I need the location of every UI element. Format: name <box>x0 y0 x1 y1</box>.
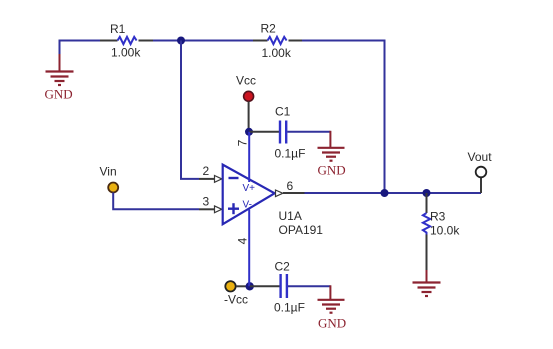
wire Vin down <box>113 193 199 210</box>
svg-text:0.1µF: 0.1µF <box>274 301 305 315</box>
wire R1 right lead <box>139 40 154 42</box>
svg-text:7: 7 <box>236 139 250 146</box>
pin 3 arrow <box>215 206 222 213</box>
svg-text:R2: R2 <box>261 22 277 36</box>
pin 6 arrow <box>276 190 283 197</box>
wire R2 right lead <box>289 40 303 42</box>
wire pin2 lead <box>199 178 215 180</box>
pin 2 arrow <box>215 176 222 183</box>
wire mid top rail <box>153 40 253 42</box>
svg-text:GND: GND <box>45 87 73 102</box>
svg-text:OPA191: OPA191 <box>279 223 324 237</box>
port -Vcc circle <box>225 281 235 291</box>
wire C2 gnd drop maroon <box>329 285 331 300</box>
node E junction -Vcc/C2/pin4 <box>246 282 254 290</box>
svg-text:-Vcc: -Vcc <box>224 293 248 307</box>
wire R1 left lead <box>100 40 118 42</box>
ground GND C2 <box>318 300 345 313</box>
wire output rail <box>305 192 482 194</box>
power Vcc dot <box>244 91 254 101</box>
node D junction Vcc/C1/pin7 <box>245 128 253 136</box>
wire Vout up <box>480 178 482 194</box>
node B junction feedback/output <box>381 189 389 197</box>
wire node A down to pin2 <box>181 41 199 179</box>
svg-text:6: 6 <box>287 179 294 193</box>
capacitor C1 <box>280 121 286 144</box>
svg-text:10.0k: 10.0k <box>430 224 460 238</box>
port Vin circle <box>108 183 118 193</box>
wire Vcc to junction <box>248 102 250 132</box>
wire -Vcc to junction <box>236 285 246 287</box>
op-amp U1A triangle <box>223 165 275 225</box>
svg-text:2: 2 <box>203 164 210 178</box>
svg-text:V-: V- <box>243 200 252 211</box>
svg-text:U1A: U1A <box>279 209 302 223</box>
svg-text:1.00k: 1.00k <box>111 46 141 60</box>
wire C2 right to gnd corner <box>288 285 330 287</box>
svg-text:R3: R3 <box>430 210 446 224</box>
ground R3 <box>413 283 441 297</box>
wire R3 bottom lead <box>426 235 428 271</box>
svg-text:GND: GND <box>318 316 346 331</box>
wire R2 left lead <box>253 40 268 42</box>
svg-text:1.00k: 1.00k <box>262 46 292 60</box>
svg-text:Vcc: Vcc <box>236 74 256 88</box>
wire top rail right and drop to output node <box>302 41 385 194</box>
wire C2 left lead <box>250 285 280 287</box>
svg-text:V+: V+ <box>243 183 256 194</box>
resistor R1 <box>118 37 137 44</box>
svg-text:R1: R1 <box>110 22 126 36</box>
pin 4 wire <box>248 210 250 287</box>
wire C1 right to ground corner <box>287 131 330 133</box>
svg-text:Vin: Vin <box>100 165 117 179</box>
node A junction R1/R2 <box>177 37 185 45</box>
svg-text:0.1µF: 0.1µF <box>275 147 306 161</box>
svg-text:GND: GND <box>318 163 346 178</box>
op-amp plus sign <box>228 203 239 214</box>
pin 7 wire <box>248 132 250 182</box>
wire pin3 lead <box>199 208 215 210</box>
svg-text:C2: C2 <box>275 260 291 274</box>
ground GND C1 <box>318 148 345 161</box>
resistor R2 <box>268 37 287 44</box>
wire top rail left blue segment <box>60 41 101 72</box>
wire R3 top lead <box>426 193 428 213</box>
svg-text:C1: C1 <box>275 105 291 119</box>
wire R3 gnd maroon <box>426 270 428 283</box>
svg-text:3: 3 <box>203 195 210 209</box>
wire C1 left lead <box>249 131 279 133</box>
svg-text:4: 4 <box>236 237 250 244</box>
port Vout circle <box>476 167 487 178</box>
op-amp minus sign <box>229 177 239 179</box>
resistor R3 <box>423 213 430 235</box>
capacitor C2 <box>281 274 287 298</box>
wire pin6 lead <box>283 192 305 194</box>
wire C1 gnd drop maroon <box>329 131 331 148</box>
node C junction R3 <box>423 189 431 197</box>
wire left ground drop maroon <box>59 54 61 72</box>
ground GND left <box>46 72 74 86</box>
svg-text:Vout: Vout <box>468 150 493 164</box>
